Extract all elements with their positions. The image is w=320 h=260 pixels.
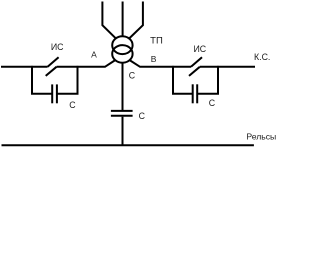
svg-text:С: С: [69, 100, 76, 110]
svg-text:ТП: ТП: [150, 36, 163, 47]
svg-text:С: С: [139, 111, 146, 121]
svg-text:С: С: [209, 98, 216, 108]
svg-text:ИС: ИС: [193, 44, 206, 54]
svg-text:A: A: [91, 49, 97, 59]
svg-text:С: С: [129, 71, 136, 81]
svg-text:Рельсы: Рельсы: [246, 132, 276, 142]
svg-text:К.С.: К.С.: [254, 52, 270, 62]
svg-text:B: B: [151, 54, 157, 64]
svg-text:ИС: ИС: [51, 42, 64, 52]
